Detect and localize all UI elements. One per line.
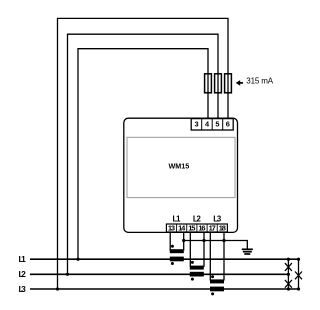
phase line L1 (30, 258, 299, 260)
wire loop L3 tap (outer loop from L3 line to terminal 6) (58, 18, 229, 289)
junction branch1 L3 (287, 287, 290, 290)
fuse F2 315mA (215, 74, 222, 93)
load branch wire 2 (298, 259, 300, 289)
junction branch1 L2 (287, 273, 290, 276)
terminal block 3-4-5-6 (191, 119, 233, 130)
svg-text:L2: L2 (193, 215, 202, 224)
wire terminal 16 lead (203, 232, 205, 267)
wire terminal 15 lead (189, 232, 191, 267)
CT2 secondary polarity dot (191, 261, 194, 264)
CT2 core bar on L2 (190, 272, 204, 277)
CT3 primary polarity dot (211, 292, 214, 295)
svg-text:16: 16 (198, 223, 205, 232)
CT3 secondary polarity dot (211, 275, 214, 278)
svg-text:L3: L3 (213, 215, 222, 224)
junction branch2 L3 (297, 287, 300, 290)
svg-text:L1: L1 (19, 254, 27, 264)
CT2 secondary winding bar (190, 266, 204, 270)
junction loop B to L2 (66, 273, 69, 276)
wire terminal 14 lead (183, 232, 185, 251)
svg-text:315 mA: 315 mA (246, 76, 273, 85)
svg-text:6: 6 (226, 120, 230, 129)
fuse X mark branch1 lower (285, 280, 292, 288)
CT1 core bar on L1 (170, 257, 184, 262)
svg-text:3: 3 (195, 120, 199, 129)
meter WM15 body (124, 118, 238, 232)
junction terminal 14 to bus (182, 239, 185, 242)
CT3 secondary winding bar (210, 279, 224, 283)
junction branch1 L1 (287, 258, 290, 261)
svg-text:L2: L2 (19, 269, 27, 279)
svg-text:5: 5 (215, 120, 219, 129)
wire loop L2 tap (middle loop from L2 line to terminal 5) (68, 34, 219, 274)
svg-text:15: 15 (188, 223, 195, 232)
junction terminal 18 to bus (222, 239, 225, 242)
junction loop A to L3 (56, 287, 59, 290)
CT1 primary polarity dot (171, 262, 174, 265)
svg-text:17: 17 (209, 223, 216, 232)
svg-text:13: 13 (168, 223, 175, 232)
wire terminal 17 lead (209, 232, 211, 281)
junction terminal 16 to bus (202, 239, 205, 242)
junction loop C to L1 (76, 258, 79, 261)
fuse F3 315mA (225, 74, 232, 93)
phase line L3 (30, 288, 299, 290)
meter display window (127, 137, 235, 197)
wire terminal 13 lead (169, 232, 171, 251)
svg-text:L1: L1 (173, 215, 182, 224)
terminal block 13-18 (166, 224, 227, 232)
CT1 secondary polarity dot (171, 245, 174, 248)
svg-text:L3: L3 (19, 284, 27, 294)
CT2 primary polarity dot (191, 278, 194, 281)
arrow pointing to fuses (236, 80, 241, 86)
svg-text:WM15: WM15 (169, 161, 190, 170)
svg-text:14: 14 (178, 223, 186, 232)
fuse X mark branch1 upper (285, 263, 292, 271)
ground bus wire (184, 241, 248, 249)
wire terminal 18 lead (223, 232, 225, 281)
CT1 secondary winding bar (170, 249, 184, 253)
CT3 core bar on L3 (210, 287, 224, 292)
junction branch2 L1 (297, 258, 300, 261)
phase line L2 (30, 273, 289, 275)
svg-text:18: 18 (219, 223, 226, 232)
load branch wire 1 (287, 259, 289, 289)
fuse F1 315mA (205, 74, 212, 93)
ground symbol (242, 249, 253, 254)
wire loop L1 tap (inner loop from L1 line to terminal 4) (78, 49, 208, 260)
fuse X mark branch2 (295, 272, 302, 280)
